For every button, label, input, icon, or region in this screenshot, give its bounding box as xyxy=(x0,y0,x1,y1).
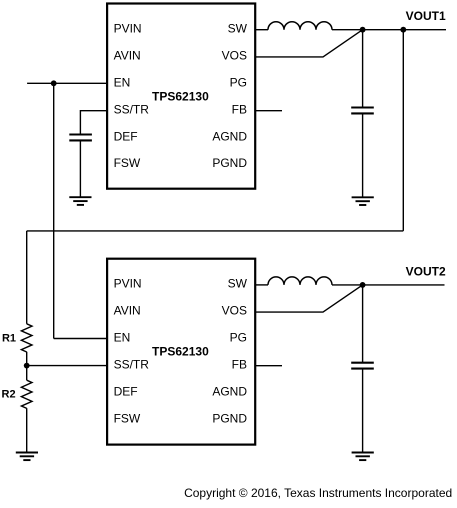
node VOUT2 label xyxy=(406,264,446,278)
svg-text:FSW: FSW xyxy=(114,411,141,425)
svg-text:VOS: VOS xyxy=(222,304,247,318)
wire output node to C2 xyxy=(362,285,364,363)
value label TPS62130 (U1) xyxy=(152,89,209,103)
pin AGND (U2) xyxy=(212,385,247,399)
wire VOUT2 output xyxy=(363,284,445,286)
pin PGND (U2) xyxy=(212,411,247,425)
inductor L2 xyxy=(268,277,332,285)
wire FB1 stub xyxy=(255,110,282,112)
svg-text:FB: FB xyxy=(232,358,247,372)
pin EN (U1) xyxy=(114,75,131,89)
pin FB (U1) xyxy=(232,102,247,116)
svg-text:EN: EN xyxy=(114,75,131,89)
svg-text:SS/TR: SS/TR xyxy=(114,358,150,372)
junction VOUT1 node A xyxy=(360,27,366,33)
wire SS/TR2 to divider tap xyxy=(27,365,107,367)
svg-text:DEF: DEF xyxy=(114,129,138,143)
pin FB (U2) xyxy=(232,358,247,372)
pin VOS (U1) xyxy=(222,48,247,62)
svg-text:VOUT2: VOUT2 xyxy=(406,264,446,278)
svg-text:AVIN: AVIN xyxy=(114,48,141,62)
wire divider top lead xyxy=(26,231,28,324)
wire SW1 stub xyxy=(255,29,268,31)
wire VOUT1 to divider (vertical) xyxy=(402,30,404,231)
wire EN1 input xyxy=(27,82,107,84)
wire FB2 stub xyxy=(255,365,282,367)
resistor R2 xyxy=(21,380,32,408)
junction EN net xyxy=(51,80,57,86)
svg-text:EN: EN xyxy=(114,331,131,345)
pin AGND (U1) xyxy=(212,129,247,143)
wire C_SS to ground xyxy=(79,140,81,196)
pin SW (U1) xyxy=(228,22,248,36)
svg-text:FSW: FSW xyxy=(114,156,141,170)
wire VOUT1 output xyxy=(363,29,446,31)
pin SS/TR (U1) xyxy=(114,102,150,116)
ground G3 xyxy=(16,453,38,461)
value label R1 xyxy=(2,333,16,345)
pin PVIN (U1) xyxy=(114,22,142,36)
pin AVIN (U2) xyxy=(114,304,141,318)
node VOUT1 label xyxy=(406,9,446,23)
svg-text:PG: PG xyxy=(230,75,247,89)
junction VOUT2 node B xyxy=(360,282,366,288)
pin PG (U1) xyxy=(230,75,247,89)
pin DEF (U1) xyxy=(114,129,138,143)
capacitor C1 xyxy=(351,108,374,114)
pin EN (U2) xyxy=(114,331,131,345)
svg-text:R2: R2 xyxy=(2,388,16,400)
wire VOS2 sense xyxy=(255,285,362,312)
svg-text:SW: SW xyxy=(228,22,248,36)
pin SS/TR (U2) xyxy=(114,358,150,372)
value label R2 xyxy=(2,388,16,400)
svg-text:PGND: PGND xyxy=(212,411,247,425)
ground G2 xyxy=(352,197,374,205)
ground G1 xyxy=(69,197,91,205)
junction divider tap xyxy=(24,363,30,369)
svg-text:SS/TR: SS/TR xyxy=(114,102,150,116)
svg-text:R1: R1 xyxy=(2,333,16,345)
svg-text:FB: FB xyxy=(232,102,247,116)
svg-text:AGND: AGND xyxy=(212,129,247,143)
wire C1 to ground xyxy=(362,113,364,196)
ground G4 xyxy=(352,453,374,461)
inductor L1 xyxy=(268,22,332,30)
pin FSW (U2) xyxy=(114,411,141,425)
svg-text:TPS62130: TPS62130 xyxy=(152,89,209,103)
pin PVIN (U2) xyxy=(114,277,142,291)
junction VOUT1 feedback tap xyxy=(400,27,406,33)
svg-text:VOUT1: VOUT1 xyxy=(406,9,446,23)
capacitor C_SS xyxy=(69,135,92,141)
pin AVIN (U1) xyxy=(114,48,141,62)
wire EN vertical bus xyxy=(53,83,55,338)
svg-text:PVIN: PVIN xyxy=(114,277,142,291)
svg-text:PG: PG xyxy=(230,331,247,345)
svg-text:TPS62130: TPS62130 xyxy=(152,345,209,359)
pin PG (U2) xyxy=(230,331,247,345)
wire EN2 xyxy=(54,338,107,340)
svg-text:VOS: VOS xyxy=(222,48,247,62)
wire L1 to output node xyxy=(332,29,363,31)
wire L2 to output node xyxy=(332,284,363,286)
pin DEF (U2) xyxy=(114,385,138,399)
wire R2 to ground xyxy=(26,408,28,452)
svg-text:AGND: AGND xyxy=(212,385,247,399)
svg-text:Copyright © 2016, Texas Instru: Copyright © 2016, Texas Instruments Inco… xyxy=(184,486,452,500)
svg-text:PVIN: PVIN xyxy=(114,22,142,36)
capacitor C2 xyxy=(351,363,374,369)
svg-text:PGND: PGND xyxy=(212,156,247,170)
wire SW2 stub xyxy=(255,284,268,286)
svg-text:SW: SW xyxy=(228,277,248,291)
svg-text:AVIN: AVIN xyxy=(114,304,141,318)
wire VOS1 sense xyxy=(255,30,362,57)
wire SS/TR1 to capacitor xyxy=(80,111,107,134)
resistor R1 xyxy=(21,324,32,352)
value label TPS62130 (U2) xyxy=(152,345,209,359)
pin VOS (U2) xyxy=(222,304,247,318)
wire output node to C1 xyxy=(362,30,364,108)
wire C2 to ground xyxy=(362,369,364,452)
pin FSW (U1) xyxy=(114,156,141,170)
wire R1 to R2 xyxy=(26,352,28,380)
pin SW (U2) xyxy=(228,277,248,291)
op-amp U1 TPS62130 body xyxy=(107,4,255,189)
wire VOUT1 to divider (horizontal) xyxy=(27,230,404,232)
copyright note xyxy=(184,486,452,500)
pin PGND (U1) xyxy=(212,156,247,170)
op-amp U2 TPS62130 body xyxy=(107,259,255,445)
svg-text:DEF: DEF xyxy=(114,385,138,399)
